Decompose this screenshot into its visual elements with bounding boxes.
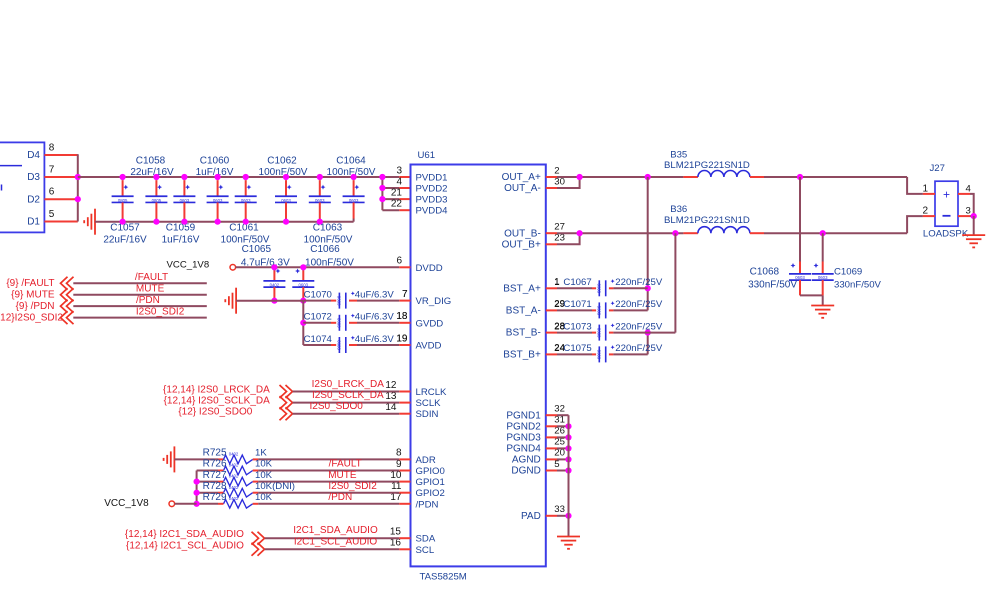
wire C1069 to ground [822, 295, 824, 305]
svg-text:D3: D3 [27, 172, 40, 183]
junction J27 [971, 213, 977, 219]
pin 6 wire [44, 198, 77, 200]
junction [317, 174, 323, 180]
wire [73, 317, 207, 319]
svg-text:2: 2 [554, 165, 559, 176]
svg-text:{12,14} I2S0_SCLK_DA: {12,14} I2S0_SCLK_DA [164, 396, 271, 407]
junction C1069 [820, 230, 826, 236]
svg-text:+: + [943, 188, 950, 202]
svg-text:D4: D4 [27, 150, 40, 161]
svg-text:R726: R726 [203, 459, 227, 470]
svg-text:C1074: C1074 [304, 334, 333, 345]
op-amp U61 TAS5825M body [411, 165, 546, 567]
svg-text:J27: J27 [930, 163, 945, 174]
wire [253, 458, 259, 460]
svg-text:14: 14 [385, 402, 397, 413]
capacitor C1070 4uF/6.3V [303, 300, 331, 302]
svg-text:R727: R727 [203, 470, 227, 481]
wire BST_B+ vertical [647, 333, 649, 355]
svg-text:B36: B36 [670, 204, 687, 215]
wire [265, 548, 400, 550]
capacitor C1059 1uF/16V [183, 177, 185, 180]
wire left lead [197, 470, 218, 472]
svg-text:MUTE: MUTE [136, 284, 165, 295]
svg-text:0603: 0603 [597, 306, 602, 316]
svg-text:VCC_1V8: VCC_1V8 [167, 260, 210, 271]
svg-text:R729: R729 [203, 492, 227, 503]
svg-text:4: 4 [966, 184, 972, 195]
svg-text:0603: 0603 [597, 328, 602, 338]
svg-text:R725: R725 [203, 448, 227, 459]
svg-text:GPIO1: GPIO1 [416, 477, 445, 488]
junction C1065 top [271, 264, 277, 270]
capacitor C1058 22uF/16V [155, 177, 157, 180]
wire [293, 402, 400, 404]
svg-text:BST_B-: BST_B- [506, 328, 541, 339]
svg-text:9: 9 [396, 459, 402, 470]
connector D1-D4 (partial box) [0, 142, 44, 232]
svg-text:I2S0_LRCK_DA: I2S0_LRCK_DA [312, 379, 385, 390]
resistor R726 10K [224, 466, 253, 475]
svg-text:OUT_A-: OUT_A- [504, 183, 541, 194]
svg-text:C1072: C1072 [304, 312, 332, 323]
svg-text:26: 26 [554, 426, 565, 437]
wire ground drop vertical [302, 301, 304, 345]
svg-text:AGND: AGND [512, 455, 541, 466]
junction BST_B [672, 230, 678, 236]
svg-text:330nF/50V: 330nF/50V [834, 279, 882, 290]
svg-text:C1066: C1066 [310, 244, 340, 255]
capacitor C1063 100nF/50V [319, 177, 321, 180]
wire PGND pin [546, 470, 557, 472]
svg-text:12: 12 [385, 380, 397, 391]
svg-text:0402: 0402 [229, 463, 239, 468]
junction BST_A+ row [645, 285, 651, 291]
wire OUT_B- pin27 [546, 232, 557, 234]
ferrite bead B36 BLM21PG221SN1D [683, 232, 698, 234]
connector J27 LOADSPK [935, 181, 958, 226]
wire PVDD pin 22 [382, 209, 399, 211]
junction [577, 174, 583, 180]
svg-text:4.7uF/6.3V: 4.7uF/6.3V [241, 258, 290, 269]
wire left lead [197, 492, 218, 494]
svg-text:31: 31 [554, 415, 565, 426]
svg-text:13: 13 [385, 391, 397, 402]
svg-text:{9} /PDN: {9} /PDN [16, 301, 55, 312]
svg-text:4uF/6.3V: 4uF/6.3V [355, 312, 395, 323]
wire PVDD bus [78, 176, 400, 178]
svg-text:BLM21PG221SN1D: BLM21PG221SN1D [664, 160, 750, 171]
wire J27 pin1 [907, 177, 923, 194]
svg-text:C1063: C1063 [313, 222, 343, 233]
wire J27 to ground [973, 216, 975, 235]
wire OUT_A+ pin2 [546, 176, 557, 178]
svg-text:11: 11 [391, 481, 402, 492]
wire J27 pin4 [958, 193, 970, 195]
svg-text:0603: 0603 [337, 296, 342, 306]
svg-text:I2S0_SDI2: I2S0_SDI2 [136, 307, 185, 318]
capacitor C1071 220nF/25V [546, 309, 557, 311]
svg-text:C1067: C1067 [563, 277, 591, 288]
ground (decoupling row) [94, 209, 96, 235]
svg-text:PGND2: PGND2 [506, 421, 541, 432]
svg-text:C1059: C1059 [166, 222, 196, 233]
wire PGND pin [546, 458, 557, 460]
svg-text:330nF/50V: 330nF/50V [748, 279, 797, 290]
svg-text:220nF/25V: 220nF/25V [615, 299, 663, 310]
svg-text:MUTE: MUTE [328, 470, 357, 481]
wire PGND pin [546, 425, 557, 427]
junction [215, 174, 221, 180]
svg-text:BLM21PG221SN1D: BLM21PG221SN1D [664, 215, 750, 226]
svg-text:C1057: C1057 [110, 222, 140, 233]
svg-text:C1065: C1065 [242, 244, 272, 255]
svg-text:OUT_A+: OUT_A+ [502, 172, 541, 183]
junction [565, 456, 571, 462]
svg-text:4uF/6.3V: 4uF/6.3V [355, 334, 395, 345]
wire [253, 503, 259, 505]
svg-text:22uF/16V: 22uF/16V [103, 234, 147, 245]
svg-text:TAS5825M: TAS5825M [420, 572, 467, 583]
svg-text:SDIN: SDIN [416, 409, 439, 420]
svg-text:8: 8 [49, 142, 55, 153]
wire OUT_B+ pin23 jog [546, 243, 557, 245]
capacitor C1061 100nF/50V [245, 177, 247, 180]
wire PGND pin [546, 447, 557, 449]
svg-text:3: 3 [396, 165, 402, 176]
capacitor C1067 220nF/25V [546, 287, 557, 289]
resistor R728 10K(DNI) [224, 488, 253, 497]
junction [283, 219, 289, 225]
svg-text:BST_A+: BST_A+ [503, 283, 541, 294]
svg-text:4: 4 [396, 176, 402, 187]
ground (PGND) [557, 536, 580, 538]
svg-text:0603: 0603 [597, 284, 602, 294]
wire PGND vertical [568, 415, 570, 536]
svg-text:C1068: C1068 [750, 267, 780, 278]
junction [153, 219, 159, 225]
svg-text:PGND3: PGND3 [506, 433, 541, 444]
svg-text:/PDN: /PDN [328, 492, 352, 503]
svg-text:PGND1: PGND1 [506, 410, 541, 421]
svg-text:C1058: C1058 [136, 155, 166, 166]
wire PGND pin [546, 414, 557, 416]
svg-text:I2S0_SDO0: I2S0_SDO0 [310, 401, 364, 412]
svg-text:4uF/6.3V: 4uF/6.3V [355, 290, 395, 301]
svg-text:0603: 0603 [337, 318, 342, 328]
svg-text:{9} MUTE: {9} MUTE [11, 290, 55, 301]
wire [293, 413, 400, 415]
wire B35 to J27 [764, 176, 907, 178]
svg-text:33: 33 [554, 504, 565, 515]
wire BST_A vertical [647, 177, 649, 310]
wire BST_B vertical [674, 233, 676, 332]
svg-text:B35: B35 [670, 149, 687, 160]
resistor R727 10K [224, 477, 253, 486]
svg-text:15: 15 [390, 527, 402, 538]
junction BST_B- row [645, 330, 651, 336]
svg-text:21: 21 [391, 187, 403, 198]
svg-text:PGND4: PGND4 [506, 444, 541, 455]
svg-text:R728: R728 [203, 481, 227, 492]
wire PVDD2-4 vertical [381, 177, 383, 210]
svg-text:PVDD1: PVDD1 [416, 173, 448, 184]
svg-text:1K: 1K [255, 448, 267, 459]
svg-text:10: 10 [390, 470, 402, 481]
wire left lead [197, 503, 218, 505]
svg-text:GVDD: GVDD [416, 318, 444, 329]
ground (C1068/C1069) [811, 305, 834, 307]
wire PAD pin [546, 515, 557, 517]
svg-text:5: 5 [49, 209, 55, 220]
capacitor C1074 4uF/6.3V [303, 344, 331, 346]
svg-text:3: 3 [966, 206, 971, 217]
svg-text:6: 6 [396, 256, 402, 267]
svg-text:{9} /FAULT: {9} /FAULT [6, 278, 54, 289]
svg-text:C1060: C1060 [200, 155, 230, 166]
wire [253, 481, 259, 483]
wire pull-up bus vertical [196, 471, 198, 504]
svg-text:{12,14} I2C1_SDA_AUDIO: {12,14} I2C1_SDA_AUDIO [125, 529, 244, 540]
svg-text:I2S0_SDI2: I2S0_SDI2 [328, 481, 377, 492]
capacitor C1064 100nF/50V [353, 177, 355, 180]
svg-text:DVDD: DVDD [416, 263, 443, 274]
svg-text:2: 2 [922, 206, 928, 217]
wire ground bus [95, 221, 354, 223]
svg-text:/FAULT: /FAULT [329, 459, 362, 470]
svg-text:22uF/16V: 22uF/16V [130, 167, 174, 178]
svg-text:I2C1_SCL_AUDIO: I2C1_SCL_AUDIO [294, 536, 378, 547]
wire C1068 bottom jog [800, 294, 823, 296]
svg-text:0402: 0402 [229, 474, 239, 479]
svg-text:32: 32 [554, 404, 565, 415]
svg-text:VCC_1V8: VCC_1V8 [104, 498, 149, 509]
svg-text:10K(DNI): 10K(DNI) [255, 481, 295, 492]
svg-text:10K: 10K [255, 492, 273, 503]
pin 5 wire [44, 221, 77, 223]
junction C1072 row [300, 320, 306, 326]
wire J27 pin3 [958, 215, 970, 217]
svg-text:220nF/25V: 220nF/25V [615, 321, 663, 332]
resistor R725 1K [224, 455, 253, 464]
capacitor C1073 220nF/25V [546, 332, 557, 334]
svg-text:/PDN: /PDN [136, 295, 160, 306]
junction [565, 445, 571, 451]
svg-text:1: 1 [554, 277, 559, 288]
svg-text:VR_DIG: VR_DIG [416, 296, 452, 307]
junction pin21 [379, 196, 385, 202]
junction [153, 174, 159, 180]
junction [317, 219, 323, 225]
svg-text:C1073: C1073 [563, 321, 591, 332]
capacitor C1075 220nF/25V [546, 353, 557, 355]
wire OUT_A- pin30 jog [546, 187, 557, 189]
pin 8 wire [44, 154, 77, 156]
svg-text:OUT_B+: OUT_B+ [502, 239, 541, 250]
svg-text:22: 22 [391, 199, 403, 210]
capacitor C1066 100nF/50V [302, 267, 304, 270]
wire [253, 492, 259, 494]
svg-text:C1075: C1075 [563, 343, 591, 354]
wire [175, 503, 197, 505]
junction PAD [565, 513, 571, 519]
ground (J27) [962, 234, 985, 236]
junction [120, 174, 126, 180]
svg-text:ADR: ADR [416, 455, 436, 466]
junction PVDD drop [379, 174, 385, 180]
wire [265, 537, 400, 539]
svg-text:/FAULT: /FAULT [135, 272, 168, 283]
capacitor C1068 330nF/50V [799, 177, 801, 262]
svg-text:GPIO0: GPIO0 [416, 466, 445, 477]
svg-text:C1062: C1062 [267, 155, 297, 166]
junction C1068 [797, 174, 803, 180]
svg-text:D1: D1 [27, 217, 40, 228]
svg-text:7: 7 [49, 164, 55, 175]
svg-text:LOADSPK: LOADSPK [923, 228, 969, 239]
capacitor C1057 22uF/16V [122, 177, 124, 180]
resistor R729 10K [224, 500, 253, 509]
wire [73, 305, 207, 307]
capacitor C1062 100nF/50V [285, 177, 287, 180]
junction [194, 479, 200, 485]
svg-text:GPIO2: GPIO2 [416, 488, 445, 499]
junction C1066 top [300, 264, 306, 270]
svg-text:OUT_B-: OUT_B- [504, 228, 541, 239]
wire left lead [197, 481, 218, 483]
wire [73, 294, 207, 296]
wire [253, 470, 259, 472]
svg-text:100nF/50V: 100nF/50V [305, 258, 354, 269]
svg-text:C1070: C1070 [304, 290, 332, 301]
svg-text:{12}I2S0_SDI2: {12}I2S0_SDI2 [0, 312, 63, 323]
svg-text:17: 17 [390, 492, 402, 503]
svg-text:18: 18 [396, 311, 408, 322]
wire PVDD pin 21 [382, 198, 399, 200]
junction [120, 219, 126, 225]
wire analog ground bus [236, 300, 303, 302]
svg-text:PAD: PAD [521, 511, 541, 522]
capacitor C1072 4uF/6.3V [303, 322, 331, 324]
capacitor C1069 330nF/50V [822, 233, 824, 261]
wire PGND pin [546, 436, 557, 438]
junction [194, 490, 200, 496]
svg-text:U61: U61 [418, 150, 436, 161]
wire PVDD pin 4 [382, 187, 399, 189]
wire R725 left [174, 458, 218, 460]
svg-text:1: 1 [922, 184, 928, 195]
svg-text:0603: 0603 [597, 350, 602, 360]
svg-text:6: 6 [49, 187, 55, 198]
svg-text:1uF/16V: 1uF/16V [162, 234, 200, 245]
junction [243, 219, 249, 225]
svg-text:8: 8 [396, 448, 402, 459]
svg-text:PVDD3: PVDD3 [416, 195, 448, 206]
svg-text:10K: 10K [255, 459, 273, 470]
svg-text:C1071: C1071 [563, 299, 591, 310]
svg-text:{12,14} I2C1_SCL_AUDIO: {12,14} I2C1_SCL_AUDIO [126, 540, 244, 551]
svg-text:LRCLK: LRCLK [416, 387, 448, 398]
svg-text:5: 5 [554, 459, 559, 470]
junction [565, 423, 571, 429]
junction [565, 467, 571, 473]
svg-text:0402: 0402 [229, 452, 239, 457]
junction [181, 219, 187, 225]
svg-text:BST_A-: BST_A- [506, 306, 541, 317]
svg-text:DGND: DGND [511, 466, 540, 477]
svg-text:PVDD4: PVDD4 [416, 206, 449, 217]
svg-text:10K: 10K [255, 470, 273, 481]
svg-text:SCLK: SCLK [416, 398, 442, 409]
svg-text:SCL: SCL [416, 545, 435, 556]
svg-text:AVDD: AVDD [416, 341, 442, 352]
svg-text:PVDD2: PVDD2 [416, 184, 448, 195]
svg-text:0402: 0402 [229, 485, 239, 490]
svg-text:19: 19 [396, 333, 408, 344]
svg-text:220nF/25V: 220nF/25V [615, 343, 663, 354]
junction C1066 bottom [300, 298, 306, 304]
svg-text:27: 27 [554, 222, 565, 233]
junction [215, 219, 221, 225]
wire J27 pin2 [907, 216, 923, 233]
svg-text:{12,14} I2S0_LRCK_DA: {12,14} I2S0_LRCK_DA [163, 385, 270, 396]
wire DVDD [236, 266, 400, 268]
svg-text:C1069: C1069 [834, 267, 862, 278]
svg-text:7: 7 [402, 289, 408, 300]
junction C1065 bottom [271, 298, 277, 304]
capacitor C1060 1uF/16V [217, 177, 219, 180]
ground (VR_DIG group) [235, 288, 237, 314]
svg-text:0402: 0402 [229, 496, 239, 501]
junction [181, 174, 187, 180]
junction [243, 174, 249, 180]
wire [293, 391, 400, 393]
svg-text:{12} I2S0_SDO0: {12} I2S0_SDO0 [178, 407, 252, 418]
wire D-pins vertical [77, 154, 79, 221]
svg-text:D2: D2 [27, 194, 40, 205]
svg-text:16: 16 [390, 538, 402, 549]
svg-text:23: 23 [554, 233, 565, 244]
junction BST_A [645, 174, 651, 180]
junction [194, 501, 200, 507]
junction D3 [75, 174, 81, 180]
junction D2 [75, 196, 81, 202]
svg-text:BST_B+: BST_B+ [503, 350, 541, 361]
svg-text:I2C1_SDA_AUDIO: I2C1_SDA_AUDIO [293, 525, 378, 536]
junction pin4 [379, 185, 385, 191]
junction [565, 434, 571, 440]
ferrite bead B35 BLM21PG221SN1D [683, 176, 698, 178]
svg-text:0603: 0603 [337, 340, 342, 350]
ground (R725) [173, 446, 175, 472]
svg-text:/PDN: /PDN [416, 499, 439, 510]
svg-text:220nF/25V: 220nF/25V [615, 277, 663, 288]
pin 7 wire [44, 176, 77, 178]
junction [283, 174, 289, 180]
svg-text:SDA: SDA [416, 534, 436, 545]
capacitor C1065 4.7uF/6.3V [273, 267, 275, 270]
wire B36 to J27 [764, 232, 907, 234]
svg-text:C1064: C1064 [336, 155, 366, 166]
junction [577, 230, 583, 236]
svg-text:I2S0_SCLK_DA: I2S0_SCLK_DA [312, 390, 384, 401]
junction [351, 174, 357, 180]
wire [73, 282, 207, 284]
